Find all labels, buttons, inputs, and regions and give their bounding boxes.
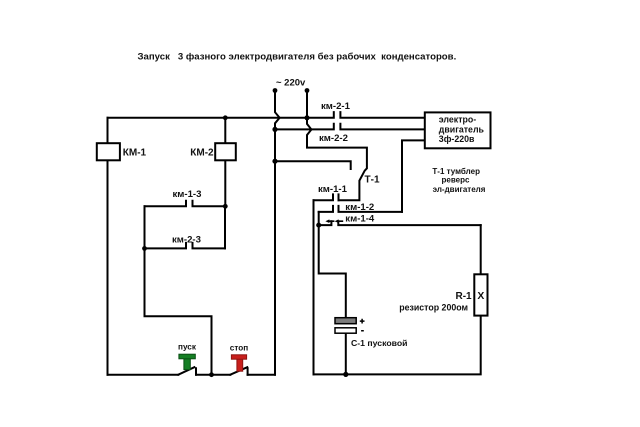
svg-text:X: X <box>477 291 484 302</box>
svg-text:км-1-3: км-1-3 <box>173 189 202 200</box>
svg-text:3ф-220в: 3ф-220в <box>439 134 475 144</box>
svg-text:КМ-2: КМ-2 <box>190 147 214 158</box>
svg-text:стоп: стоп <box>230 344 248 353</box>
svg-text:двигатель: двигатель <box>439 124 485 134</box>
svg-text:Т-1: Т-1 <box>365 175 380 186</box>
svg-text:км-1-4: км-1-4 <box>345 213 375 224</box>
svg-text:Т-1 тумблер: Т-1 тумблер <box>432 167 480 176</box>
svg-text:Запуск 3 фазного электродвиг: Запуск 3 фазного электродвигателя без ра… <box>138 52 457 63</box>
svg-text:электро-: электро- <box>439 114 476 124</box>
svg-text:резистор 200ом: резистор 200ом <box>399 302 468 312</box>
svg-text:км-1-1: км-1-1 <box>318 184 348 195</box>
svg-text:км-2-2: км-2-2 <box>319 133 348 144</box>
svg-text:км-2-1: км-2-1 <box>321 101 351 112</box>
svg-text:км-2-3: км-2-3 <box>172 235 201 246</box>
svg-text:пуск: пуск <box>178 342 197 351</box>
svg-text:реверс: реверс <box>442 176 470 185</box>
svg-text:эл-двигателя: эл-двигателя <box>433 185 486 194</box>
svg-text:R-1: R-1 <box>456 291 473 302</box>
svg-text:км-1-2: км-1-2 <box>345 202 374 213</box>
svg-text:КМ-1: КМ-1 <box>123 147 147 158</box>
svg-text:С-1 пусковой: С-1 пусковой <box>351 338 408 348</box>
svg-text:~ 220v: ~ 220v <box>276 78 306 89</box>
